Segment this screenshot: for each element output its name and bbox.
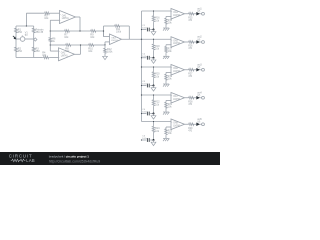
svg-text:100n: 100n [142,56,148,58]
svg-text:OA3: OA3 [111,37,116,40]
svg-text:350: 350 [18,31,23,34]
svg-text:OA4: OA4 [173,11,178,14]
svg-text:LAB: LAB [26,158,35,163]
svg-text:OA7: OA7 [173,95,178,98]
svg-text:LM741: LM741 [173,15,181,17]
svg-text:350.35: 350.35 [36,31,44,34]
svg-text:LM741: LM741 [61,55,69,57]
svg-text:(V): (V) [197,95,200,97]
svg-text:350: 350 [36,50,41,53]
svg-text:out1: out1 [197,7,202,10]
svg-text:100k: 100k [107,51,113,54]
svg-text:LM741: LM741 [173,71,181,73]
svg-text:100k: 100k [116,31,122,33]
svg-text:LM741: LM741 [173,99,181,101]
svg-text:LM741: LM741 [173,43,181,45]
svg-text:LM741: LM741 [173,125,181,127]
svg-text:LM741: LM741 [111,40,118,42]
svg-text:350: 350 [18,50,23,53]
svg-text:out3: out3 [197,63,202,66]
svg-text:out2: out2 [197,36,202,39]
svg-text:bradyclark / circuits project: bradyclark / circuits project 1 [49,154,90,158]
svg-text:100n: 100n [142,112,148,114]
svg-text:OA8: OA8 [173,122,178,125]
svg-text:LM741: LM741 [62,18,70,20]
svg-text:OA6: OA6 [173,67,178,70]
svg-text:OA1: OA1 [62,14,67,17]
svg-text:OA5: OA5 [173,39,178,42]
svg-text:http://circuitlab.com/c52k4dsf: http://circuitlab.com/c52k4dsfRu9 [49,160,101,164]
svg-text:100n: 100n [142,84,148,86]
svg-text:out5: out5 [197,118,202,121]
svg-text:(V): (V) [197,67,200,69]
svg-text:5V: 5V [25,34,28,37]
svg-text:out4: out4 [197,91,202,94]
svg-text:(V): (V) [197,122,200,124]
svg-text:(V): (V) [197,39,200,41]
svg-text:100n: 100n [142,28,148,30]
svg-text:(V): (V) [197,11,200,13]
svg-text:100n: 100n [142,138,148,140]
